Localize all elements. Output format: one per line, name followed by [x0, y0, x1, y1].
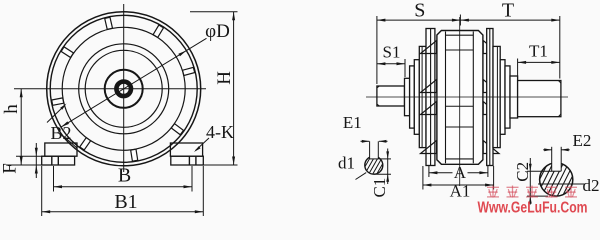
svg-text:φD: φD: [205, 21, 230, 42]
input shaft: [377, 86, 405, 106]
d2 keyway slot lines: [552, 147, 562, 171]
B1 arrow right: [195, 210, 204, 213]
label S: [414, 0, 425, 22]
svg-text:Www.GeLuFu.Com: Www.GeLuFu.Com: [478, 200, 588, 217]
label S1: [383, 43, 401, 62]
label B1: [114, 191, 137, 213]
C2 lower extension: [527, 195, 548, 197]
svg-text:A1: A1: [450, 182, 471, 201]
drum rib right 4: [483, 141, 499, 154]
A dimension line: [429, 172, 488, 174]
shaft boss circle: [105, 70, 143, 108]
B arrow right: [184, 185, 193, 188]
svg-text:T: T: [502, 0, 514, 22]
output shaft chamfer: [558, 81, 561, 117]
drum rib right 3: [483, 102, 499, 115]
A1 right extension: [493, 166, 495, 190]
C1 upper extension: [379, 158, 392, 160]
label B2: [50, 123, 71, 143]
svg-text:E2: E2: [573, 131, 592, 150]
C1 dimension line: [387, 149, 389, 185]
left flange disc: [426, 29, 435, 166]
left foot hole: [52, 156, 59, 165]
outer rim circle: [47, 12, 201, 166]
B1 left extension: [41, 166, 43, 216]
left view horizontal centerline: [14, 88, 206, 90]
main drum housing: [437, 31, 483, 165]
svg-text:d1: d1: [338, 154, 355, 173]
H dim bottom extension: [203, 164, 237, 166]
F arrow upper: [35, 148, 38, 157]
S1 arrow left: [377, 62, 386, 65]
H dim top extension: [190, 11, 238, 13]
drum rib left 1: [421, 41, 437, 54]
right foot block: [170, 143, 202, 156]
A1 dimension line: [423, 184, 494, 186]
svg-text:H: H: [214, 71, 235, 85]
B dimension line: [54, 186, 193, 188]
svg-text:E1: E1: [343, 113, 362, 132]
C1 lower extension: [374, 173, 391, 175]
svg-text:B1: B1: [114, 191, 137, 213]
label T1: [529, 42, 548, 61]
label d1: [338, 154, 355, 173]
cooling fins on housing: [52, 17, 195, 161]
C1 arrow lower: [386, 174, 389, 182]
d1 section hatch: [354, 151, 406, 179]
right disc 2: [500, 60, 505, 135]
H arrow top: [232, 12, 235, 20]
left disc 3 inner line: [421, 46, 423, 147]
h dimension line: [20, 89, 22, 165]
T1 left extension: [517, 59, 519, 80]
drum rib left 4: [421, 141, 437, 154]
d1 section circle: [365, 156, 383, 174]
B left extension: [53, 166, 55, 192]
left foot block: [45, 143, 77, 156]
S1 right extension: [404, 59, 406, 77]
label C1: [370, 178, 389, 198]
label C2: [513, 162, 532, 182]
svg-text:S: S: [414, 0, 425, 22]
C2 arrow upper: [529, 164, 532, 172]
C2 upper extension: [527, 170, 552, 172]
left foot pad: [42, 156, 75, 165]
drum inner cross line 3: [446, 126, 474, 128]
C1 arrow upper: [386, 151, 389, 159]
A left extension: [428, 166, 430, 177]
drum rib left 2: [421, 80, 437, 93]
output shaft: [518, 81, 561, 117]
right view axis centerline: [366, 96, 568, 98]
left view vertical centerline: [123, 4, 125, 172]
right foot hole: [189, 156, 196, 165]
input shaft chamfer: [377, 86, 379, 106]
E2 dimension arrows: [543, 148, 570, 151]
svg-text:B2: B2: [50, 123, 71, 143]
drum rib right 2: [483, 80, 499, 93]
T right extension: [559, 16, 561, 79]
F dimension line: [35, 143, 37, 178]
housing circle r45: [79, 44, 169, 134]
hub bold ring: [116, 82, 131, 97]
right disc 3 inner line: [496, 46, 498, 147]
S-T dimension line: [377, 19, 560, 21]
d2 section hatch: [516, 154, 600, 206]
d2 section circle: [540, 163, 573, 196]
H dimension line: [233, 12, 235, 165]
left disc 1: [410, 66, 415, 128]
label B: [118, 165, 131, 187]
S1 dimension line: [377, 63, 405, 65]
B2 leader to foot: [64, 137, 77, 149]
C2 arrow lower: [529, 196, 532, 204]
label 4-K: [206, 122, 234, 142]
S left extension: [376, 16, 378, 84]
foot bottom extension left: [6, 164, 42, 166]
left disc 3: [419, 46, 426, 147]
svg-text:4-K: 4-K: [206, 122, 234, 142]
4-K leader: [194, 138, 209, 152]
right disc 1: [505, 66, 510, 128]
label phi-D: [205, 21, 230, 42]
h arrow bottom: [20, 157, 23, 166]
T1 arrow left: [518, 61, 527, 64]
d1 leader: [356, 173, 367, 180]
right flange disc inner line: [489, 29, 491, 166]
svg-text:C2: C2: [513, 162, 532, 182]
B1 right extension: [202, 166, 204, 216]
watermark url text: [478, 200, 588, 217]
phi-D arrow upper: [178, 51, 186, 57]
B arrow left: [54, 185, 63, 188]
input shaft collar: [405, 78, 410, 115]
svg-text:B: B: [118, 165, 131, 187]
A arrow right: [479, 171, 488, 174]
drum rib right 1: [483, 41, 499, 54]
svg-text:C1: C1: [370, 178, 389, 198]
label H: [214, 71, 235, 85]
svg-text:A: A: [454, 163, 467, 182]
d2 keyway slot blank: [552, 162, 562, 171]
B right extension: [191, 166, 193, 192]
d1 keyway slot blank: [370, 155, 379, 159]
E1 dimension arrows: [361, 140, 388, 143]
A1 arrow right: [485, 184, 494, 187]
A right extension: [487, 166, 489, 177]
svg-text:h: h: [1, 104, 22, 114]
svg-text:F: F: [0, 163, 21, 174]
inner rim circle: [50, 15, 197, 162]
d2 leader: [538, 183, 585, 185]
S1 arrow right: [397, 62, 406, 65]
right flange disc: [487, 29, 493, 166]
output shaft collar: [510, 76, 518, 118]
label F: [0, 163, 21, 174]
B1 dimension line: [42, 211, 204, 213]
S arrow middle: [452, 19, 461, 22]
C2 dimension line: [529, 158, 531, 205]
drum inner top line: [446, 34, 474, 36]
svg-text:T1: T1: [529, 42, 548, 61]
label A: [454, 163, 467, 182]
H arrow bottom: [232, 157, 235, 166]
drum inner vertical right: [472, 32, 474, 164]
T1 dimension line: [518, 61, 560, 63]
F arrow lower: [35, 165, 38, 174]
F dim top extension: [16, 155, 44, 157]
right foot pad: [171, 156, 204, 165]
drum inner vertical left: [445, 32, 447, 164]
T arrow right: [551, 19, 560, 22]
label d2: [583, 176, 600, 195]
drum inner bottom line: [446, 158, 474, 160]
S-T middle tick: [459, 15, 461, 26]
label E2: [573, 131, 592, 150]
drum rib left 3: [421, 102, 437, 115]
B2 leader to housing: [47, 104, 67, 123]
drum inner cross line 2: [446, 105, 474, 107]
foot bottom extension right: [203, 164, 237, 166]
d1 keyway slot lines: [370, 141, 379, 159]
left disc 2: [414, 60, 419, 135]
svg-text:d2: d2: [583, 176, 600, 195]
phi-D arrow lower: [61, 121, 69, 127]
right disc 3: [493, 46, 500, 147]
T1 arrow right: [551, 61, 560, 64]
A1 arrow left: [423, 184, 432, 187]
left flange disc inner line: [430, 29, 432, 166]
S arrow left: [377, 19, 386, 22]
label E1: [343, 113, 362, 132]
phi-D diameter leader line: [61, 38, 207, 127]
h arrow top: [20, 89, 23, 98]
label h: [1, 104, 22, 114]
label A1: [450, 182, 471, 201]
B1 arrow left: [42, 210, 51, 213]
fin base circle: [62, 27, 185, 150]
label T: [502, 0, 514, 22]
svg-text:S1: S1: [383, 43, 401, 62]
drum inner cross line 1: [446, 49, 474, 51]
A arrow left: [429, 171, 438, 174]
right view body centerline: [459, 17, 461, 186]
watermark chinese characters: [487, 186, 577, 198]
A1 left extension: [422, 166, 424, 190]
T arrow middle: [460, 19, 469, 22]
housing circle r38: [85, 50, 162, 127]
